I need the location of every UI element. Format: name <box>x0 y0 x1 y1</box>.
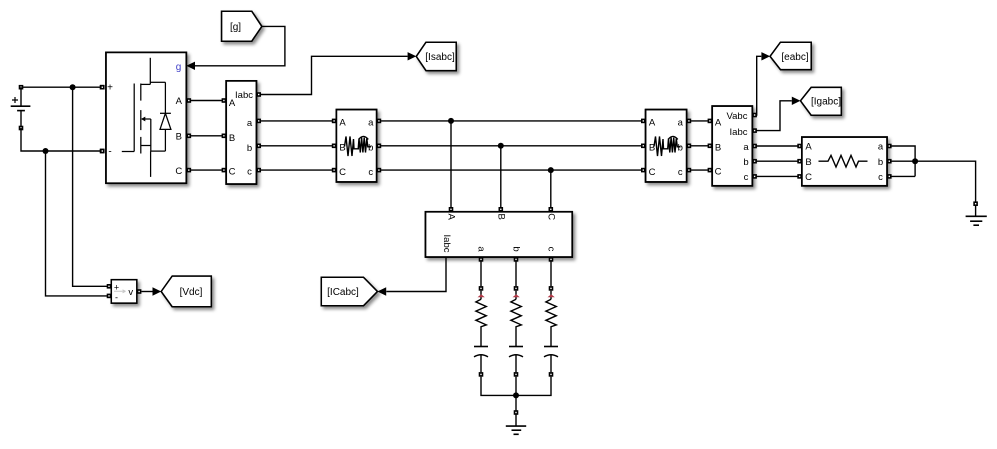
svg-text:C: C <box>175 166 182 177</box>
wire DC+ to bridge <box>19 85 105 90</box>
svg-text:A: A <box>446 214 457 221</box>
IGBT/diode icon <box>122 58 171 177</box>
svg-text:b: b <box>247 143 252 154</box>
wire load a to neutral bus <box>887 144 915 177</box>
svg-text:B: B <box>805 157 811 168</box>
svg-text:+: + <box>107 82 113 93</box>
wire Iabc to [Igabc] <box>752 97 800 133</box>
svg-text:[eabc]: [eabc] <box>781 52 808 63</box>
wire RLC1 a to RLC2 A <box>377 119 646 124</box>
svg-text:a: a <box>878 142 884 153</box>
svg-text:b: b <box>368 142 373 153</box>
svg-text:[ICabc]: [ICabc] <box>327 287 359 298</box>
wire RLC1 b to RLC2 B <box>377 144 646 149</box>
svg-text:B: B <box>229 133 235 144</box>
svg-text:c: c <box>368 167 373 178</box>
wire star point to ground G1 <box>514 395 519 426</box>
svg-text:a: a <box>743 142 749 153</box>
svg-text:c: c <box>744 172 749 183</box>
wire Iabc out to [Isabc] <box>256 52 416 97</box>
wire VI c to load C <box>752 174 802 179</box>
junction neutral <box>912 158 918 164</box>
wire bridge A to measurement A <box>186 98 226 103</box>
svg-text:c: c <box>678 167 683 178</box>
svg-text:[Igabc]: [Igabc] <box>811 96 841 107</box>
three-phase series RLC branch 2 <box>646 110 687 182</box>
svg-text:Iabc: Iabc <box>235 90 253 101</box>
inductor scribble icon <box>345 136 372 156</box>
wire junction to Vdc+ <box>73 87 109 286</box>
svg-text:C: C <box>715 167 722 178</box>
wire filter measurement c to RC branch c <box>549 257 554 286</box>
wire DC- to bridge <box>21 128 104 153</box>
DC voltage source E <box>11 87 31 130</box>
resistor icon <box>819 155 868 167</box>
universal bridge (IGBT inverter) <box>100 52 186 183</box>
wire measurement b to RLC1 B <box>256 144 336 149</box>
svg-text:B: B <box>495 214 506 220</box>
wire filter measurement a to RC branch a <box>479 257 484 286</box>
wire Vabc to [eabc] <box>752 52 770 117</box>
junction phase a <box>448 118 454 124</box>
svg-text:B: B <box>715 142 721 153</box>
svg-text:C: C <box>649 167 656 178</box>
wire load c to neutral bus <box>887 174 915 179</box>
wire RLC2 c to VI measurement C <box>687 168 713 173</box>
RC branch a <box>474 286 488 377</box>
svg-text:A: A <box>715 117 722 128</box>
wire filter Iabc out to [ICabc] <box>377 257 446 296</box>
wire VI a to load A <box>752 144 802 149</box>
wire drop phase b to filter measurement B <box>499 146 504 212</box>
svg-text:A: A <box>805 142 812 153</box>
svg-text:A: A <box>176 96 183 107</box>
svg-text:c: c <box>247 167 252 178</box>
wire bridge C to measurement C <box>186 168 226 173</box>
svg-text:b: b <box>878 157 883 168</box>
goto tag [Vdc] <box>161 276 211 307</box>
svg-text:a: a <box>678 117 684 128</box>
goto tag [ICabc] <box>321 277 377 306</box>
svg-text:v: v <box>128 287 133 298</box>
svg-text:c: c <box>878 172 883 183</box>
wire RLC2 b to VI measurement B <box>687 144 713 149</box>
wire [g] to bridge gate <box>186 26 285 70</box>
filter current measurement Iabc (rotated) <box>426 212 573 257</box>
svg-text:b: b <box>510 246 521 251</box>
svg-text:[g]: [g] <box>230 22 241 33</box>
goto tag [Igabc] <box>801 87 842 115</box>
three-phase V-I measurement <box>712 106 752 186</box>
svg-text:C: C <box>339 167 346 178</box>
wire measurement a to RLC1 A <box>256 119 336 124</box>
svg-text:a: a <box>368 117 374 128</box>
voltage measurement Vdc <box>107 280 142 303</box>
wire drop phase c to filter measurement C <box>549 170 554 212</box>
svg-text:A: A <box>229 98 236 109</box>
svg-text:a: a <box>475 246 486 252</box>
svg-text:Iabc: Iabc <box>441 235 452 253</box>
junction phase b <box>498 143 504 149</box>
wire measurement c to RLC1 C <box>256 168 336 173</box>
wire filter measurement b to RC branch b <box>514 257 519 286</box>
wire RLC1 c to RLC2 C <box>377 168 646 173</box>
svg-text:[Vdc]: [Vdc] <box>180 287 203 298</box>
svg-text:c: c <box>545 247 556 252</box>
three-phase resistive load <box>802 137 887 186</box>
junction star point <box>513 392 519 398</box>
junction phase c <box>548 167 554 173</box>
svg-text:b: b <box>678 142 683 153</box>
wire VI b to load B <box>752 159 802 164</box>
svg-text:C: C <box>545 213 556 220</box>
wire RLC2 a to VI measurement A <box>687 119 713 124</box>
svg-text:Vabc: Vabc <box>727 111 748 122</box>
wire RC outputs to star point <box>481 377 551 396</box>
svg-text:g: g <box>176 62 182 73</box>
svg-text:Iabc: Iabc <box>730 127 748 138</box>
svg-text:[Isabc]: [Isabc] <box>425 52 455 63</box>
wire bridge B to measurement B <box>186 134 226 139</box>
goto tag [Isabc] <box>416 42 456 70</box>
svg-text:-: - <box>115 293 118 303</box>
svg-text:B: B <box>176 132 182 143</box>
three-phase series RLC branch 1 <box>336 110 376 182</box>
goto tag [eabc] <box>770 42 811 69</box>
svg-text:C: C <box>805 172 812 183</box>
svg-text:b: b <box>743 157 748 168</box>
wire drop phase a to filter measurement A <box>449 121 454 212</box>
RC branch b <box>509 286 523 377</box>
from tag [g] <box>222 11 262 41</box>
wire Vdc to [Vdc] <box>141 287 161 295</box>
RC branch c <box>544 286 558 377</box>
junction on DC- wire <box>43 148 49 154</box>
svg-text:-: - <box>108 147 111 158</box>
inductor scribble icon <box>654 136 681 156</box>
ground G1 <box>506 426 526 434</box>
ground G2 <box>966 216 987 225</box>
wire load b to neutral bus <box>887 159 915 164</box>
wire junction to Vdc- <box>46 151 110 296</box>
three-phase current measurement Isabc <box>226 81 256 184</box>
junction on DC+ wire <box>70 84 76 90</box>
svg-text:A: A <box>649 117 656 128</box>
svg-text:C: C <box>229 167 236 178</box>
svg-text:A: A <box>339 117 346 128</box>
svg-text:a: a <box>247 118 253 129</box>
wire neutral to ground G2 <box>915 161 978 216</box>
